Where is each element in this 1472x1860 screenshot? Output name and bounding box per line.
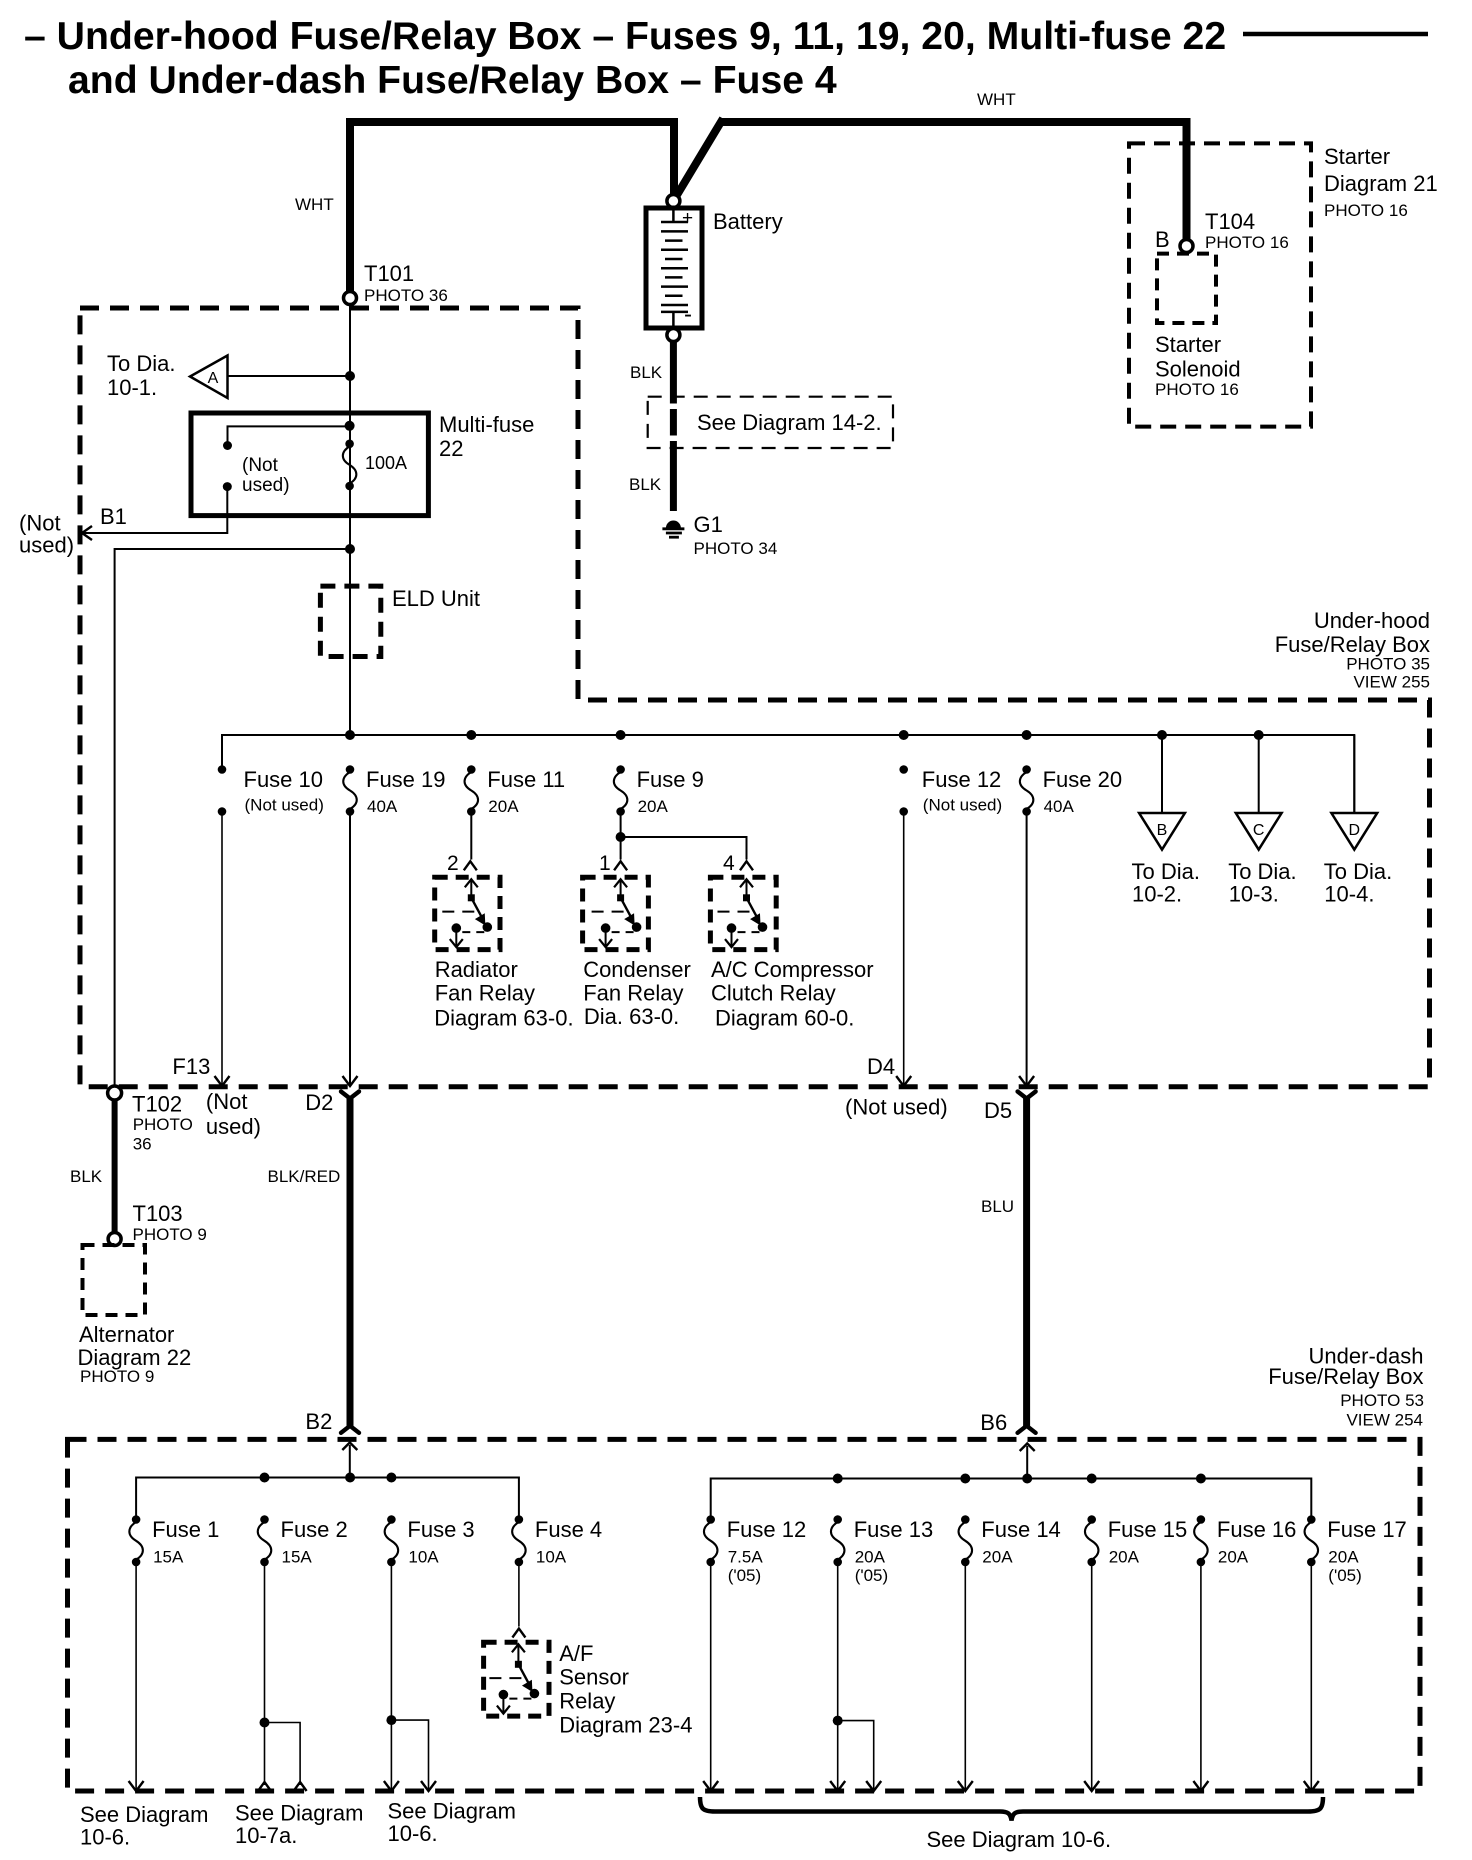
svg-text:VIEW 255: VIEW 255: [1353, 673, 1430, 692]
fuse 19: [346, 765, 355, 774]
svg-text:7.5A: 7.5A: [728, 1548, 764, 1567]
svg-text:10-6.: 10-6.: [388, 1821, 438, 1846]
svg-text:PHOTO 16: PHOTO 16: [1155, 380, 1239, 399]
chevron B2 bottom: [341, 1426, 359, 1433]
svg-text:Alternator: Alternator: [79, 1322, 174, 1347]
svg-text:10-2.: 10-2.: [1132, 882, 1182, 907]
arrow fuse1: [129, 1781, 144, 1791]
svg-text:Fuse 15: Fuse 15: [1108, 1517, 1188, 1542]
fuse 11: [467, 765, 476, 774]
svg-text:('05): ('05): [1328, 1566, 1361, 1585]
multi-fuse 22 box: [191, 413, 428, 516]
terminal T102: [108, 1086, 122, 1100]
junction fuse3: [386, 1715, 396, 1725]
svg-text:+: +: [682, 208, 693, 229]
bus2 junction: [386, 1473, 396, 1483]
svg-text:PHOTO 36: PHOTO 36: [364, 286, 448, 305]
wire fuse12d down: [710, 1562, 712, 1789]
arrow fuse17: [1304, 1781, 1319, 1791]
svg-text:See Diagram: See Diagram: [388, 1799, 516, 1824]
wire to triangle B: [1161, 735, 1163, 813]
svg-text:20A: 20A: [1109, 1548, 1140, 1567]
svg-text:C: C: [1253, 822, 1265, 839]
bus junction: [1254, 730, 1264, 740]
to dia 10-1 triangle A: [190, 356, 228, 399]
arrow fuse16: [1193, 1781, 1208, 1791]
alternator box: [83, 1245, 146, 1315]
junction T102 branch: [345, 544, 355, 554]
svg-text:used): used): [19, 533, 74, 558]
svg-text:To Dia.: To Dia.: [1132, 859, 1200, 884]
bus2b junction: [960, 1474, 970, 1484]
svg-text:Diagram 63-0.: Diagram 63-0.: [434, 1005, 573, 1030]
af sensor relay box: [484, 1642, 549, 1716]
multi-fuse pin2 dot: [223, 482, 232, 491]
fuse 16: [1197, 1515, 1206, 1524]
svg-text:40A: 40A: [367, 797, 398, 816]
svg-text:('05): ('05): [728, 1566, 761, 1585]
svg-text:40A: 40A: [1044, 797, 1075, 816]
arrow D2: [343, 1076, 358, 1086]
svg-text:T104: T104: [1205, 209, 1255, 234]
fuse 15: [1087, 1515, 1096, 1524]
svg-text:B: B: [1155, 227, 1170, 252]
ELD unit box: [320, 586, 380, 656]
junction fuse2: [260, 1718, 270, 1728]
svg-text:20A: 20A: [638, 797, 669, 816]
chevron relay4: [740, 861, 753, 870]
svg-text:Diagram 21: Diagram 21: [1324, 171, 1438, 196]
wire fuse10 to F13: [221, 812, 223, 1085]
svg-text:BLK/RED: BLK/RED: [268, 1167, 341, 1186]
svg-text:used): used): [206, 1114, 261, 1139]
svg-text:Fuse 1: Fuse 1: [152, 1517, 219, 1542]
svg-text:T101: T101: [364, 261, 414, 286]
svg-text:22: 22: [439, 436, 463, 461]
svg-text:(Not: (Not: [206, 1089, 248, 1114]
condenser fan relay symbol: [620, 880, 622, 898]
bus junction: [1022, 730, 1032, 740]
svg-text:BLK: BLK: [70, 1167, 103, 1186]
wire to relay1: [620, 837, 622, 860]
svg-text:15A: 15A: [153, 1548, 184, 1567]
svg-text:Radiator: Radiator: [435, 957, 518, 982]
chevron relay2: [464, 861, 477, 870]
bus2b junction: [1022, 1474, 1032, 1484]
svg-text:Multi-fuse: Multi-fuse: [439, 412, 534, 437]
svg-text:used): used): [242, 475, 290, 496]
bus wire: [222, 735, 1354, 813]
svg-text:PHOTO 16: PHOTO 16: [1205, 233, 1289, 252]
wire to triangle C: [1258, 735, 1260, 813]
svg-text:To Dia.: To Dia.: [1228, 859, 1296, 884]
svg-text:Fuse 11: Fuse 11: [487, 767, 565, 792]
wire fuse17 down: [1310, 1562, 1312, 1789]
bus under-dash right: [711, 1479, 1312, 1520]
fuse 3: [387, 1515, 396, 1524]
svg-text:Battery: Battery: [713, 209, 783, 234]
svg-text:Fuse 12: Fuse 12: [922, 767, 1002, 792]
wire fuse1 down: [135, 1562, 137, 1789]
wire BLU: [1023, 1097, 1030, 1426]
svg-text:and Under-dash Fuse/Relay Box: and Under-dash Fuse/Relay Box – Fuse 4: [68, 59, 837, 102]
wire fuse4 down: [518, 1562, 520, 1627]
multi-fuse pin1 dot: [223, 441, 232, 450]
svg-text:-: -: [684, 301, 692, 328]
wire to T102: [115, 549, 350, 1086]
svg-text:(Not used): (Not used): [845, 1095, 948, 1120]
wire fuse3 branch: [391, 1720, 428, 1789]
svg-text:Diagram 60-0.: Diagram 60-0.: [715, 1005, 854, 1030]
svg-text:A: A: [208, 370, 219, 387]
wire fuse14 down: [964, 1562, 966, 1789]
node A junction: [345, 371, 355, 381]
wire fuse9 down: [620, 812, 622, 838]
fuse 10 terminals: [218, 765, 227, 774]
arrow D5: [1019, 1076, 1034, 1086]
svg-text:Fan Relay: Fan Relay: [583, 981, 683, 1006]
wire fuse3 down: [390, 1562, 392, 1789]
svg-text:Fuse 2: Fuse 2: [281, 1517, 348, 1542]
multi-fuse top junction: [345, 421, 355, 431]
svg-text:BLU: BLU: [981, 1197, 1014, 1216]
to dia triangle B: [1139, 813, 1185, 850]
svg-text:F13: F13: [172, 1054, 210, 1079]
svg-text:100A: 100A: [365, 453, 407, 473]
svg-text:PHOTO 53: PHOTO 53: [1340, 1391, 1424, 1410]
title rule: [1243, 32, 1428, 37]
af sensor relay symbol: [517, 1645, 519, 1664]
chevron D2 top: [341, 1092, 359, 1099]
wire fuse15 down: [1091, 1562, 1093, 1789]
svg-text:BLK: BLK: [630, 363, 663, 382]
svg-text:Starter: Starter: [1324, 144, 1390, 169]
svg-text:(Not used): (Not used): [245, 796, 324, 815]
svg-text:Solenoid: Solenoid: [1155, 357, 1241, 382]
svg-text:Fuse 3: Fuse 3: [407, 1517, 474, 1542]
fuse 2: [260, 1515, 269, 1524]
svg-text:20A: 20A: [982, 1548, 1013, 1567]
chevron relay1: [614, 861, 627, 870]
svg-text:Fan Relay: Fan Relay: [435, 981, 535, 1006]
ground G1: [666, 521, 681, 529]
wire fuse19 to D2: [349, 812, 351, 1085]
bus2b junction: [1196, 1474, 1206, 1484]
svg-text:10-7a.: 10-7a.: [235, 1823, 297, 1848]
arrow B2 entry: [342, 1443, 357, 1451]
svg-text:Fuse 17: Fuse 17: [1327, 1517, 1407, 1542]
svg-text:Relay: Relay: [559, 1689, 615, 1714]
under-hood fuse/relay box border: [80, 308, 1430, 1087]
svg-text:BLK: BLK: [629, 475, 662, 494]
svg-text:1: 1: [599, 852, 611, 875]
svg-text:20A: 20A: [1218, 1548, 1249, 1567]
arrow F13: [215, 1076, 230, 1086]
svg-text:WHT: WHT: [977, 90, 1016, 109]
svg-text:B6: B6: [980, 1410, 1007, 1435]
svg-text:G1: G1: [694, 512, 723, 537]
svg-text:See Diagram: See Diagram: [80, 1802, 208, 1827]
svg-text:20A: 20A: [855, 1548, 886, 1567]
wire fuse2 branch: [265, 1723, 301, 1786]
svg-text:– Under-hood Fuse/Relay Box –: – Under-hood Fuse/Relay Box – Fuses 9, 1…: [24, 15, 1226, 58]
svg-text:A/C Compressor: A/C Compressor: [711, 957, 874, 982]
svg-text:WHT: WHT: [295, 195, 334, 214]
fuse 13: [833, 1515, 842, 1524]
svg-text:15A: 15A: [282, 1548, 313, 1567]
wire to triangle A: [228, 375, 351, 377]
wire fuse11 to relay: [470, 812, 472, 860]
bus2b junction: [833, 1474, 843, 1484]
arrow fuse3 a: [384, 1781, 399, 1791]
fuse 1: [132, 1515, 141, 1524]
arrow fuse12d: [703, 1781, 718, 1791]
svg-text:Fuse 9: Fuse 9: [637, 767, 704, 792]
fuse 9: [616, 765, 625, 774]
ac compressor clutch relay box: [710, 877, 776, 949]
svg-text:PHOTO 34: PHOTO 34: [694, 539, 778, 558]
radiator fan relay symbol: [470, 880, 472, 898]
multi-fuse pin1 wire: [228, 426, 350, 443]
svg-text:Condenser: Condenser: [583, 957, 691, 982]
svg-text:10A: 10A: [408, 1548, 439, 1567]
svg-text:Fuse 10: Fuse 10: [244, 767, 324, 792]
wire WHT battery to T104: [677, 119, 1187, 240]
fuse 4: [515, 1515, 524, 1524]
terminal T104: [1180, 240, 1193, 253]
svg-text:Fuse 4: Fuse 4: [535, 1517, 602, 1542]
svg-text:See Diagram: See Diagram: [235, 1801, 363, 1826]
svg-text:Fuse/Relay Box: Fuse/Relay Box: [1268, 1364, 1423, 1389]
wire fuse13 branch: [838, 1721, 874, 1789]
bus junction: [899, 730, 909, 740]
svg-text:D: D: [1349, 822, 1361, 839]
wire to relay4: [621, 837, 747, 860]
arrow D4: [896, 1076, 911, 1086]
svg-text:Fuse 20: Fuse 20: [1043, 767, 1123, 792]
svg-text:(Not used): (Not used): [923, 796, 1002, 815]
svg-text:Sensor: Sensor: [559, 1665, 629, 1690]
svg-text:PHOTO 35: PHOTO 35: [1346, 655, 1430, 674]
chevron D5 top: [1018, 1092, 1036, 1099]
svg-text:Diagram 23-4: Diagram 23-4: [559, 1712, 692, 1737]
bus2b junction: [1087, 1474, 1097, 1484]
fuse 100A: [345, 440, 354, 449]
svg-text:T102: T102: [132, 1092, 182, 1117]
chevron fuse2 b: [294, 1782, 307, 1791]
svg-text:(Not: (Not: [242, 455, 279, 476]
brace see diagram 10-6: [700, 1797, 1323, 1821]
svg-text:B2: B2: [305, 1409, 332, 1434]
svg-text:2: 2: [447, 852, 459, 875]
svg-text:Fuse/Relay Box: Fuse/Relay Box: [1275, 632, 1430, 657]
wire B1 not used: [83, 487, 227, 533]
svg-text:10-3.: 10-3.: [1229, 882, 1279, 907]
wire WHT battery to T101: [350, 122, 674, 291]
radiator fan relay box: [435, 877, 500, 949]
wire fuse13 down: [837, 1562, 839, 1789]
svg-text:PHOTO 9: PHOTO 9: [133, 1225, 207, 1244]
to dia triangle D: [1331, 813, 1377, 850]
fuse 12 underdash: [706, 1515, 715, 1524]
svg-text:D2: D2: [305, 1090, 333, 1115]
svg-text:B: B: [1157, 822, 1168, 839]
bus junction: [466, 730, 476, 740]
fuse 14: [961, 1515, 970, 1524]
wire fuse12 to D4: [903, 812, 905, 1085]
arrow fuse13 b: [866, 1781, 881, 1791]
svg-text:36: 36: [133, 1135, 152, 1154]
svg-text:A/F: A/F: [559, 1641, 593, 1666]
bus2 junction: [345, 1473, 355, 1483]
starter solenoid box: [1157, 254, 1216, 323]
bus under-dash left: [136, 1478, 519, 1520]
bus junction: [616, 730, 626, 740]
svg-text:10A: 10A: [536, 1548, 567, 1567]
svg-text:D4: D4: [867, 1054, 895, 1079]
wire fuse20 to D5: [1026, 812, 1028, 1085]
wire BLK T102-T103: [112, 1100, 118, 1233]
arrow fuse3 b: [421, 1781, 436, 1791]
bus junction: [1157, 730, 1167, 740]
svg-text:Fuse 16: Fuse 16: [1217, 1517, 1297, 1542]
svg-text:Clutch Relay: Clutch Relay: [711, 981, 836, 1006]
arrow B6 entry: [1020, 1444, 1035, 1452]
bus junction: [345, 730, 355, 740]
wire BLK battery to G1: [670, 341, 677, 404]
svg-text:PHOTO: PHOTO: [133, 1115, 193, 1134]
starter dashed box: [1129, 143, 1311, 426]
junction fuse9: [616, 832, 626, 842]
svg-text:Starter: Starter: [1155, 332, 1221, 357]
wire fuse16 down: [1200, 1562, 1202, 1789]
wire fuse2 down: [264, 1562, 266, 1785]
svg-text:('05): ('05): [855, 1566, 888, 1585]
bus2 junction: [260, 1473, 270, 1483]
svg-text:Fuse 19: Fuse 19: [366, 767, 446, 792]
svg-text:Under-hood: Under-hood: [1314, 608, 1430, 633]
svg-text:Fuse 12: Fuse 12: [727, 1517, 807, 1542]
fuse 12 terminals: [899, 765, 908, 774]
svg-text:Fuse 14: Fuse 14: [981, 1517, 1061, 1542]
wire to triangle D: [1353, 735, 1355, 813]
to dia triangle C: [1236, 813, 1282, 850]
svg-text:10-1.: 10-1.: [107, 375, 157, 400]
fuse 17: [1307, 1515, 1316, 1524]
wire T101 down to bus: [349, 305, 351, 736]
see diagram 14-2 box: [648, 397, 893, 448]
svg-text:To Dia.: To Dia.: [107, 351, 175, 376]
svg-text:T103: T103: [133, 1201, 183, 1226]
svg-text:ELD Unit: ELD Unit: [392, 586, 480, 611]
condenser fan relay box: [583, 877, 649, 949]
arrow B1: [82, 526, 92, 540]
fuse 20: [1022, 765, 1031, 774]
svg-text:VIEW 254: VIEW 254: [1346, 1411, 1423, 1430]
svg-text:4: 4: [723, 852, 735, 875]
ac compressor clutch relay symbol: [746, 880, 748, 898]
terminal T103: [108, 1233, 121, 1246]
svg-text:To Dia.: To Dia.: [1324, 859, 1392, 884]
svg-text:20A: 20A: [1328, 1548, 1359, 1567]
chevron fuse2 a: [258, 1782, 271, 1791]
svg-text:D5: D5: [984, 1098, 1012, 1123]
chevron B6 bottom: [1018, 1426, 1036, 1433]
terminal T101: [344, 292, 357, 305]
arrow fuse14: [958, 1781, 973, 1791]
chevron af relay: [512, 1629, 525, 1638]
svg-text:10-4.: 10-4.: [1324, 882, 1374, 907]
svg-text:PHOTO 9: PHOTO 9: [80, 1367, 154, 1386]
svg-text:See Diagram 14-2.: See Diagram 14-2.: [697, 410, 882, 435]
under-dash fuse/relay box border: [68, 1439, 1421, 1791]
svg-text:B1: B1: [100, 504, 127, 529]
arrow fuse15: [1084, 1781, 1099, 1791]
arrow fuse13 a: [830, 1781, 845, 1791]
svg-text:PHOTO 16: PHOTO 16: [1324, 201, 1408, 220]
svg-text:See Diagram 10-6.: See Diagram 10-6.: [927, 1827, 1112, 1852]
svg-text:10-6.: 10-6.: [80, 1825, 130, 1850]
junction fuse13: [833, 1716, 843, 1726]
wire BLK/RED: [347, 1097, 354, 1426]
svg-text:Dia. 63-0.: Dia. 63-0.: [584, 1004, 679, 1029]
svg-text:20A: 20A: [488, 797, 519, 816]
battery: [667, 195, 680, 208]
svg-text:Fuse 13: Fuse 13: [854, 1517, 934, 1542]
